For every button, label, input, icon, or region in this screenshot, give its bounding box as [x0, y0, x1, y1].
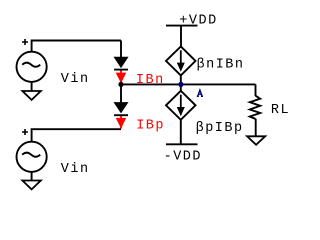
sine wave of V2 — [22, 153, 40, 157]
current arrow IBn — [116, 71, 127, 84]
AC source V1 — [17, 52, 47, 82]
svg-text:βpIBp: βpIBp — [196, 121, 244, 136]
diode D1 cathode bar — [114, 69, 128, 71]
F2 arrow — [177, 95, 185, 117]
wire V2 to ground — [31, 172, 33, 181]
wire node A horizontal — [121, 83, 256, 85]
diode D1 triangle — [114, 57, 127, 67]
svg-text:RL: RL — [271, 103, 290, 118]
ground G1 — [22, 91, 40, 100]
wire F1 to node A — [180, 75, 182, 91]
svg-text:βnIBn: βnIBn — [197, 57, 245, 72]
ground G3 (below RL) — [247, 136, 265, 145]
wire +VDD to source F1 — [180, 26, 182, 47]
wire RL to ground — [255, 119, 257, 136]
svg-text:Vin: Vin — [61, 162, 90, 177]
diode D2 triangle — [114, 103, 127, 113]
wire middle column upper — [120, 41, 122, 59]
wire middle column lower — [120, 84, 122, 103]
label node A — [197, 90, 203, 96]
AC source V2 — [17, 142, 47, 172]
diode D2 cathode bar — [114, 114, 128, 116]
sine wave of V1 — [22, 63, 40, 67]
+VDD rail bar — [166, 25, 198, 27]
F1 arrow — [177, 50, 185, 72]
wire bottom source V2 to middle column — [32, 129, 121, 141]
resistor RL zigzag — [250, 96, 260, 119]
wire V1 to ground — [31, 82, 33, 91]
plus sign of V1 — [22, 39, 28, 45]
svg-text:IBn: IBn — [136, 73, 165, 88]
dependent current source F2 diamond — [166, 91, 196, 120]
wire F2 to -VDD — [180, 120, 182, 145]
current arrow IBp — [116, 116, 127, 129]
svg-text:-VDD: -VDD — [164, 150, 202, 165]
wire top source V1 to middle column — [32, 41, 121, 52]
node A dot — [178, 82, 183, 87]
dependent current source F1 diamond — [166, 46, 196, 75]
wire node A to resistor RL — [255, 84, 257, 96]
plus sign of V2 — [22, 129, 28, 135]
svg-text:IBp: IBp — [136, 118, 165, 133]
svg-text:Vin: Vin — [61, 72, 90, 87]
ground G2 — [22, 181, 40, 190]
junction dot — [118, 82, 123, 87]
-VDD rail bar — [166, 143, 198, 145]
